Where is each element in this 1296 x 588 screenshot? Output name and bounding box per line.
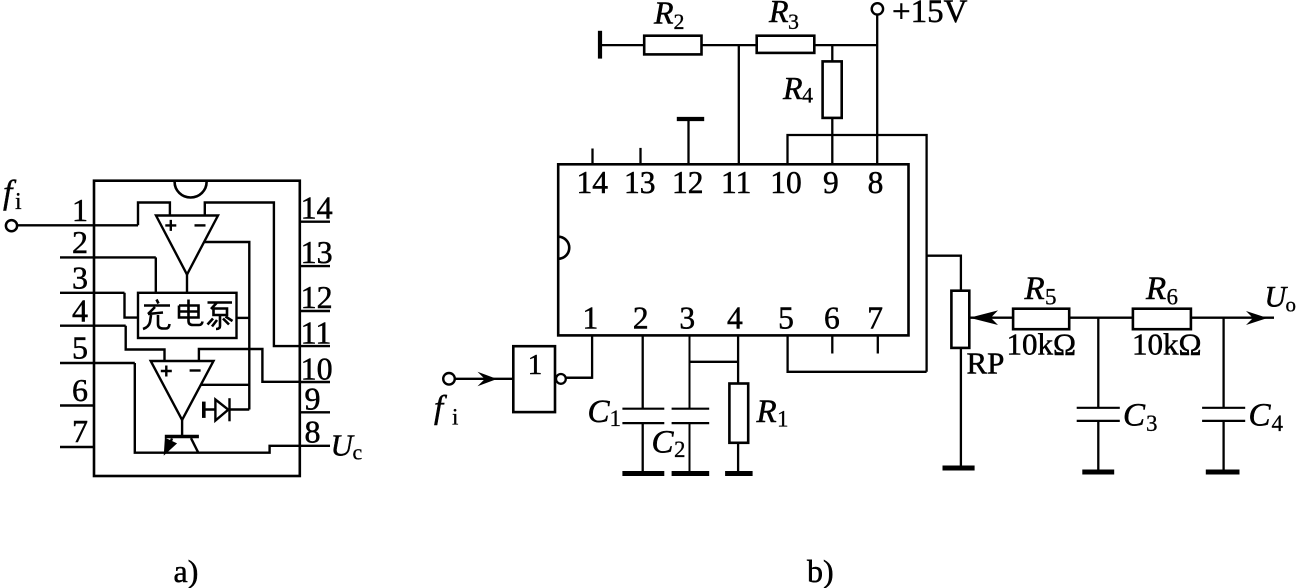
svg-text:3: 3 [1146,411,1158,436]
svg-text:5: 5 [1045,285,1057,310]
svg-text:b): b) [807,553,834,588]
svg-text:RP: RP [967,346,1005,381]
svg-text:R: R [782,70,803,106]
svg-text:13: 13 [624,165,656,200]
svg-text:11: 11 [721,165,751,200]
svg-text:C: C [652,425,675,461]
svg-text:10kΩ: 10kΩ [1132,327,1202,362]
svg-text:4: 4 [1272,411,1284,436]
svg-text:R: R [653,0,674,31]
svg-text:R: R [1145,271,1166,307]
svg-text:8: 8 [868,165,884,200]
svg-text:R: R [756,394,777,430]
svg-text:4: 4 [727,301,743,336]
svg-text:1: 1 [583,301,599,336]
svg-text:R: R [768,0,789,29]
svg-text:i: i [15,189,22,215]
svg-text:8: 8 [305,414,321,450]
svg-text:6: 6 [72,372,88,408]
svg-text:14: 14 [301,190,333,226]
svg-text:+15V: +15V [892,0,968,30]
svg-text:1: 1 [528,349,543,381]
svg-text:1: 1 [777,407,789,432]
svg-text:12: 12 [672,165,704,200]
svg-text:6: 6 [824,301,840,336]
svg-text:C: C [1123,398,1146,434]
svg-text:3: 3 [679,301,695,336]
svg-text:5: 5 [778,301,794,336]
svg-text:3: 3 [788,9,799,34]
svg-text:o: o [1286,293,1296,317]
svg-text:4: 4 [802,83,813,108]
svg-text:1: 1 [72,192,88,228]
svg-text:R: R [1024,271,1045,307]
svg-text:6: 6 [1167,285,1179,310]
svg-text:2: 2 [674,9,685,34]
svg-text:5: 5 [72,330,88,366]
svg-text:12: 12 [301,279,333,315]
svg-text:a): a) [174,553,199,588]
svg-text:9: 9 [823,165,839,200]
svg-text:9: 9 [305,381,321,417]
svg-text:2: 2 [72,224,88,260]
svg-text:4: 4 [72,293,88,329]
svg-text:3: 3 [72,260,88,296]
svg-text:14: 14 [577,165,609,200]
svg-text:c: c [353,440,363,465]
svg-text:13: 13 [301,234,333,270]
svg-text:1: 1 [610,406,622,431]
svg-text:f: f [434,390,447,426]
svg-text:2: 2 [633,301,649,336]
svg-text:C: C [1249,398,1272,434]
svg-text:7: 7 [867,301,883,336]
svg-text:11: 11 [301,315,332,351]
svg-text:2: 2 [674,437,686,462]
svg-text:C: C [588,394,611,430]
svg-text:10kΩ: 10kΩ [1007,327,1077,362]
svg-text:10: 10 [770,165,802,200]
svg-text:7: 7 [72,413,88,449]
svg-text:i: i [452,405,458,430]
